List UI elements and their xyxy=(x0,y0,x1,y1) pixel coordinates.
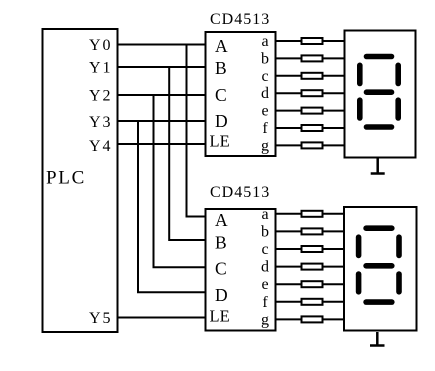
svg-text:d: d xyxy=(261,259,269,276)
resistor R11 xyxy=(302,264,323,270)
svg-text:D: D xyxy=(215,285,228,305)
wire R7 to DS1 g xyxy=(323,144,345,146)
svg-text:PLC: PLC xyxy=(46,168,86,189)
wire U2 f to R13 xyxy=(277,301,302,303)
wire U2 b to R9 xyxy=(277,230,302,232)
svg-text:e: e xyxy=(261,276,268,293)
DS2 segment f xyxy=(356,237,362,255)
svg-text:a: a xyxy=(261,33,268,50)
wire U2 a to R8 xyxy=(277,213,302,215)
wire Y1 to U1 pin B xyxy=(118,66,206,68)
wire Y0 to U1 pin A xyxy=(118,44,206,46)
wire R5 to DS1 e xyxy=(323,110,345,112)
DS1 segment b xyxy=(395,65,401,83)
DS1 segment a xyxy=(367,54,392,60)
wire branch Y2 to U2 pin C xyxy=(154,95,206,267)
wire branch Y0 to U2 pin A xyxy=(187,45,206,217)
wire R1 to DS1 a xyxy=(323,40,345,42)
resistor R12 xyxy=(302,281,323,287)
DS2 segment a xyxy=(366,225,392,231)
wire U1 c to R3 xyxy=(277,75,302,77)
DS2 segment g xyxy=(366,263,392,269)
svg-text:Y0: Y0 xyxy=(89,37,113,54)
resistor R8 xyxy=(302,211,323,217)
resistor R9 xyxy=(302,228,323,234)
wire U1 g to R7 xyxy=(277,144,302,146)
svg-text:Y4: Y4 xyxy=(89,138,113,155)
resistor R14 xyxy=(302,316,323,322)
wire branch Y3 to U2 pin D xyxy=(138,121,206,292)
wire R11 to DS2 d xyxy=(323,266,345,268)
wire R10 to DS2 c xyxy=(323,248,345,250)
wire R2 to DS1 b xyxy=(323,57,345,59)
svg-text:CD4513: CD4513 xyxy=(210,11,270,28)
ground DS2 xyxy=(370,332,385,346)
svg-text:e: e xyxy=(261,103,268,120)
svg-text:b: b xyxy=(261,223,269,240)
svg-text:Y2: Y2 xyxy=(89,88,113,105)
svg-text:Y5: Y5 xyxy=(89,310,113,327)
svg-text:a: a xyxy=(261,206,268,223)
wire Y5 to U2 pin LE xyxy=(118,317,206,319)
svg-text:f: f xyxy=(262,294,268,311)
resistor R2 xyxy=(302,55,323,61)
svg-text:c: c xyxy=(261,241,268,258)
wire U2 c to R10 xyxy=(277,248,302,250)
svg-text:Y1: Y1 xyxy=(89,60,113,77)
svg-text:c: c xyxy=(261,68,268,85)
svg-text:C: C xyxy=(215,85,227,105)
IC U2 CD4513 box xyxy=(206,209,276,331)
svg-text:C: C xyxy=(215,259,227,279)
resistor R6 xyxy=(302,125,323,131)
wire R12 to DS2 e xyxy=(323,283,345,285)
svg-text:LE: LE xyxy=(210,307,230,326)
DS2 segment b xyxy=(396,237,402,255)
wire R6 to DS1 f xyxy=(323,127,345,129)
resistor R13 xyxy=(302,299,323,305)
display DS1 box xyxy=(345,31,416,158)
DS1 segment g xyxy=(367,89,392,95)
wire U2 g to R14 xyxy=(277,318,302,320)
resistor R10 xyxy=(302,246,323,252)
wire R8 to DS2 a xyxy=(323,213,345,215)
wire branch Y1 to U2 pin B xyxy=(169,67,205,240)
wire Y2 to U1 pin C xyxy=(118,94,206,96)
IC U1 CD4513 box xyxy=(206,32,276,156)
wire Y4 to U1 pin LE xyxy=(118,143,206,145)
wire R3 to DS1 c xyxy=(323,75,345,77)
resistor R1 xyxy=(302,38,323,44)
wire U2 d to R11 xyxy=(277,266,302,268)
svg-text:B: B xyxy=(215,232,227,252)
wire R4 to DS1 d xyxy=(323,92,345,94)
wire U1 d to R4 xyxy=(277,92,302,94)
wire R13 to DS2 f xyxy=(323,301,345,303)
svg-text:LE: LE xyxy=(210,131,230,150)
resistor R7 xyxy=(302,142,323,148)
wire U1 a to R1 xyxy=(277,40,302,42)
DS1 segment d xyxy=(367,124,392,130)
resistor R3 xyxy=(302,73,323,79)
DS1 segment f xyxy=(357,65,363,83)
svg-text:g: g xyxy=(261,311,269,328)
svg-text:A: A xyxy=(215,210,228,230)
wire U1 b to R2 xyxy=(277,57,302,59)
svg-text:b: b xyxy=(261,50,269,67)
svg-text:A: A xyxy=(215,36,228,56)
resistor R4 xyxy=(302,90,323,96)
ground DS1 xyxy=(371,159,385,174)
wire U2 e to R12 xyxy=(277,283,302,285)
wire U1 f to R6 xyxy=(277,127,302,129)
svg-text:f: f xyxy=(262,120,268,137)
wire R14 to DS2 g xyxy=(323,318,345,320)
svg-text:d: d xyxy=(261,85,269,102)
DS1 segment c xyxy=(395,100,401,118)
resistor R5 xyxy=(302,108,323,114)
DS1 segment e xyxy=(357,100,363,118)
svg-text:D: D xyxy=(215,111,228,131)
DS2 segment d xyxy=(366,299,392,305)
wire R9 to DS2 b xyxy=(323,230,345,232)
DS2 segment e xyxy=(356,274,362,292)
svg-text:CD4513: CD4513 xyxy=(210,184,270,201)
wire U1 e to R5 xyxy=(277,110,302,112)
PLC box xyxy=(43,29,118,332)
display DS2 box xyxy=(344,207,417,331)
svg-text:B: B xyxy=(215,58,227,78)
DS2 segment c xyxy=(396,274,402,292)
wire Y3 to U1 pin D xyxy=(118,120,206,122)
svg-text:Y3: Y3 xyxy=(89,114,113,131)
svg-text:g: g xyxy=(261,137,269,154)
